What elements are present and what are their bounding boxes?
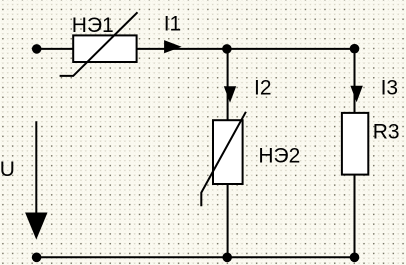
svg-text:U: U — [0, 158, 15, 181]
nonlinear element НЭ2 — [201, 112, 246, 206]
wire: node A to node B — [227, 48, 355, 50]
node B — [350, 44, 360, 54]
svg-text:R3: R3 — [373, 121, 400, 144]
node C — [222, 252, 232, 262]
nonlinear element НЭ1 — [60, 12, 138, 76]
svg-text:НЭ2: НЭ2 — [258, 144, 300, 167]
wire: НЭ1 to node A — [137, 48, 227, 50]
svg-text:НЭ1: НЭ1 — [72, 14, 114, 37]
svg-text:I2: I2 — [254, 76, 272, 99]
terminal node top-left — [32, 44, 42, 54]
svg-text:I1: I1 — [164, 13, 182, 36]
wire: node A down to НЭ2 — [227, 49, 229, 120]
bottom wire — [37, 256, 355, 258]
resistor R3 — [342, 113, 368, 175]
wire: НЭ2 to bottom node C — [227, 184, 229, 257]
node D — [350, 252, 360, 262]
node A — [222, 44, 232, 54]
wire: node B down to R3 — [354, 49, 356, 113]
current arrow I3 — [350, 86, 362, 102]
svg-text:I3: I3 — [381, 76, 399, 99]
terminal node bottom-left — [32, 252, 42, 262]
voltage arrow U — [25, 121, 47, 239]
wire: R3 to bottom node D — [354, 175, 356, 258]
current arrow I1 — [164, 40, 182, 53]
current arrow I2 — [224, 86, 236, 103]
wire: top-left terminal to НЭ1 — [37, 48, 73, 50]
